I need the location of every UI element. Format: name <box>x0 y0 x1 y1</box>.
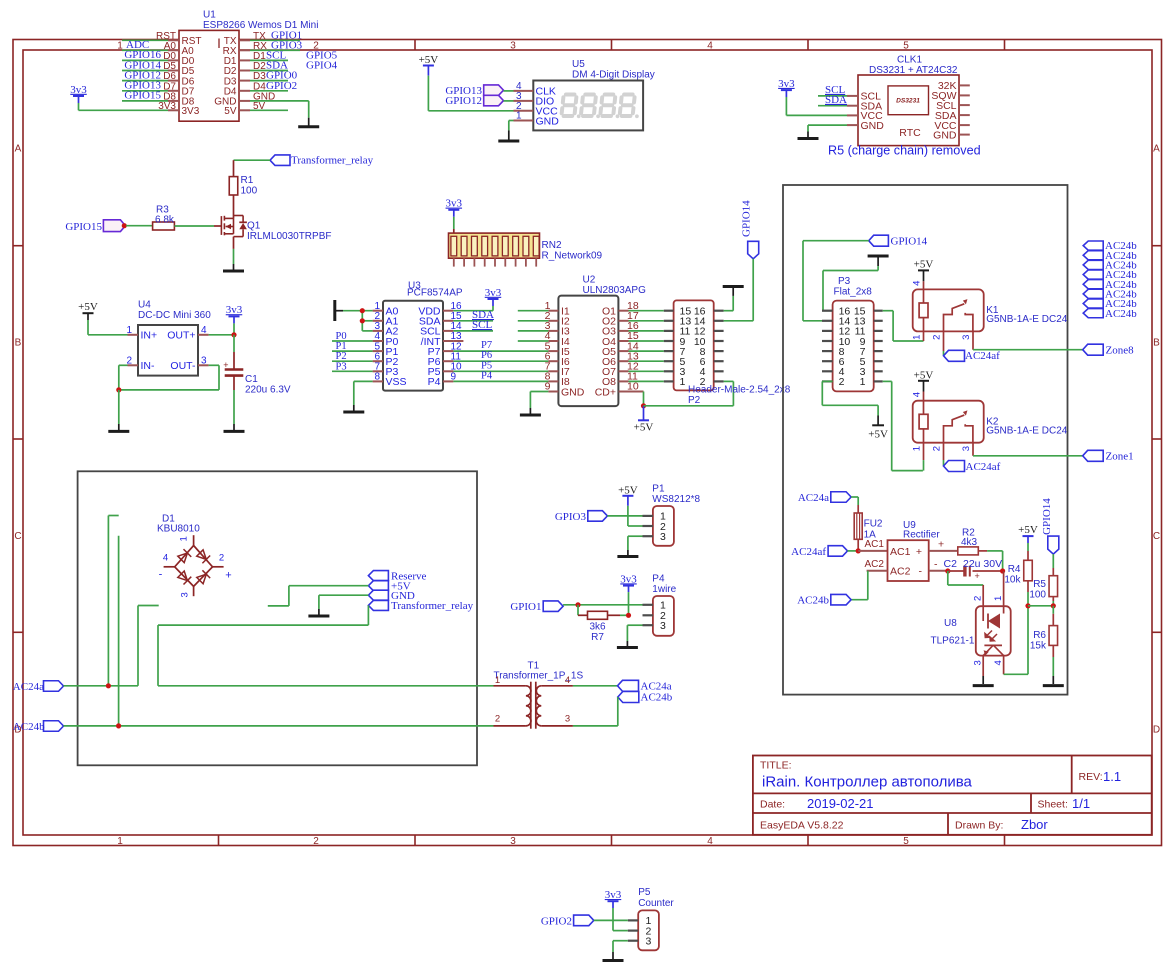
wire I1 input <box>518 310 549 312</box>
wire U5 GND <box>509 121 514 141</box>
flag GPIO12 <box>445 95 503 107</box>
wire P2 net (U3 left) <box>332 360 373 362</box>
svg-text:GPIO12: GPIO12 <box>445 95 482 107</box>
svg-text:Zone1: Zone1 <box>1106 451 1134 463</box>
svg-text:TLP621-1: TLP621-1 <box>931 635 975 646</box>
junction AC24a <box>106 683 111 688</box>
wire O2 to P2 <box>629 320 664 322</box>
flag GPIO14 (P2) <box>741 200 759 259</box>
svg-text:AC2: AC2 <box>890 566 911 578</box>
svg-text:4: 4 <box>707 40 713 51</box>
wire U8 pin3 ground <box>982 656 984 684</box>
ground (P5) <box>603 959 624 962</box>
power +5V (R4) <box>1018 524 1038 560</box>
ground (P1) <box>617 555 638 558</box>
wire P5 U3-U2 <box>453 370 548 372</box>
flag Zone1 <box>1083 450 1134 462</box>
svg-text:U8: U8 <box>944 618 957 629</box>
svg-text:IRLML0030TRPBF: IRLML0030TRPBF <box>247 231 331 242</box>
wire GPIO15 to R3 <box>126 225 153 227</box>
flag GPIO14 (vertical, R5) <box>1041 498 1059 554</box>
svg-text:1/1: 1/1 <box>1072 796 1090 811</box>
wire T1 pin3 to AC24b flag <box>573 697 618 726</box>
capacitor C2 22u 30V <box>944 558 1003 581</box>
svg-text:REV:: REV: <box>1079 771 1103 783</box>
svg-text:AC24af: AC24af <box>966 461 1001 473</box>
wire I2 input <box>518 320 549 322</box>
svg-text:Transformer_relay: Transformer_relay <box>291 155 374 167</box>
junction C2 left <box>945 568 950 573</box>
wire O1 to P2 <box>629 310 664 312</box>
U5 7-segment digits <box>561 95 638 119</box>
svg-text:Zbor: Zbor <box>1021 817 1048 832</box>
wire P3 pin1 to K2 <box>883 381 923 470</box>
wire A0/A1/A2 tie <box>343 311 373 331</box>
wire AC24a to T1 pin1 <box>158 685 494 687</box>
svg-text:4: 4 <box>565 675 570 686</box>
stub /INT <box>453 340 463 342</box>
wire U9 + output <box>929 550 958 552</box>
IC U2 ULN2803APG <box>545 274 646 406</box>
connector P3 Flat_2x8 <box>822 276 883 391</box>
wire P3 pin15 to K1 <box>883 311 924 341</box>
junction R7/P4 pin2 <box>626 613 631 618</box>
svg-text:P4: P4 <box>652 573 665 584</box>
svg-text:PCF8574AP: PCF8574AP <box>407 288 463 299</box>
flag GPIO13 <box>445 85 503 97</box>
svg-text:4: 4 <box>912 392 923 397</box>
wire GPIO1 to P4 pin1 <box>563 604 642 606</box>
svg-text:100: 100 <box>241 186 258 197</box>
svg-text:Flat_2x8: Flat_2x8 <box>834 287 873 298</box>
wire GPIO12 net <box>122 80 168 82</box>
svg-text:1: 1 <box>860 376 866 388</box>
svg-text:3k6: 3k6 <box>589 622 606 633</box>
svg-text:GPIO15: GPIO15 <box>124 90 161 102</box>
junction node2 <box>1025 603 1030 608</box>
IC U4 DC-DC Mini 360 <box>126 300 211 376</box>
wire P4 U3-U2 <box>453 380 548 382</box>
wire R6 ground <box>1052 645 1054 684</box>
svg-text:CLK1: CLK1 <box>897 55 922 66</box>
svg-text:+5V: +5V <box>1018 524 1038 536</box>
label U8 TLP621-1 <box>931 618 975 647</box>
flag AC24b (T1) <box>618 692 673 704</box>
flag Transformer_relay (module) <box>368 600 473 612</box>
ground (U5) <box>498 140 519 143</box>
power 3v3 (U4 out) <box>209 304 243 335</box>
svg-text:FU2: FU2 <box>864 518 883 529</box>
svg-text:GPIO15: GPIO15 <box>65 221 102 233</box>
resistor R3 6.8k <box>153 204 175 230</box>
power +5V (K2) <box>914 369 934 400</box>
module box (relay board) <box>783 185 1068 695</box>
svg-text:3v3: 3v3 <box>778 78 795 90</box>
svg-text:AC24af: AC24af <box>965 350 1000 362</box>
svg-text:VSS: VSS <box>386 376 407 388</box>
svg-text:AC24af: AC24af <box>791 546 826 558</box>
power 3v3 (RN2) <box>446 198 463 237</box>
wire D4 GPIO2 <box>250 90 288 92</box>
power +5V (K1) <box>914 259 934 290</box>
wire P6 U3-U2 <box>453 360 548 362</box>
svg-text:5V: 5V <box>224 106 237 117</box>
svg-text:AC1: AC1 <box>890 546 911 558</box>
svg-text:U5: U5 <box>572 59 585 70</box>
wire node1 to U8 pin1 <box>1003 571 1005 606</box>
svg-text:AC24b: AC24b <box>797 595 829 607</box>
svg-text:1: 1 <box>117 836 123 847</box>
flag AC24af (K2) <box>944 461 1001 473</box>
svg-text:U4: U4 <box>138 300 151 311</box>
wire K2 pin3 to Zone1 <box>973 443 1083 456</box>
svg-text:3v3: 3v3 <box>620 573 637 585</box>
svg-text:R5 (charge chain) removed: R5 (charge chain) removed <box>828 143 981 157</box>
svg-text:GND: GND <box>933 129 957 141</box>
svg-text:22u 30V: 22u 30V <box>963 558 1002 570</box>
svg-text:+: + <box>223 360 228 370</box>
wire P3 pin2 to +5V <box>822 381 878 415</box>
svg-text:+: + <box>225 570 231 582</box>
power 3v3 (U3 VDD) <box>453 287 501 311</box>
ground (Q1) <box>223 270 244 273</box>
svg-text:-: - <box>159 569 163 581</box>
IC U5 DM 4-Digit Display <box>514 59 655 130</box>
junction FU2/AC1 <box>856 548 861 553</box>
svg-text:KBU8010: KBU8010 <box>157 524 200 535</box>
junction A0 <box>360 308 365 313</box>
svg-text:EasyEDA V5.8.22: EasyEDA V5.8.22 <box>760 820 844 832</box>
svg-text:GPIO14: GPIO14 <box>1041 498 1053 535</box>
wire AC24a to FU2 <box>851 497 858 513</box>
wire stub bridge top-left <box>108 516 118 686</box>
wire U3 SCL <box>453 330 493 332</box>
flag AC24a (fuse) <box>798 492 851 504</box>
wire U1 5V <box>250 109 288 111</box>
wire RX GPIO3 <box>250 49 300 51</box>
junction GPIO15 <box>122 223 127 228</box>
power 3v3 (U1) <box>70 84 168 111</box>
wire K2 pin2 to AC24af <box>943 443 945 466</box>
junction CD+ <box>641 403 646 408</box>
svg-text:P4: P4 <box>428 376 441 388</box>
svg-text:+5V: +5V <box>868 428 888 440</box>
flag Transformer_relay (Q1) <box>270 155 374 167</box>
svg-text:+5V: +5V <box>914 259 934 271</box>
svg-text:DC-DC Mini 360: DC-DC Mini 360 <box>138 310 211 321</box>
svg-text:GPIO2: GPIO2 <box>541 915 572 927</box>
wire P1 net (U3 left) <box>332 350 373 352</box>
resistor R5 100 <box>1029 576 1057 601</box>
svg-text:IN+: IN+ <box>141 330 158 342</box>
svg-text:4: 4 <box>912 281 923 286</box>
wire U3 VSS to ground <box>354 381 373 411</box>
junction node3 <box>1051 603 1056 608</box>
ground (U8) <box>973 684 994 687</box>
svg-text:4: 4 <box>707 836 713 847</box>
wire K2 pin1 down <box>923 443 925 471</box>
wire D1 SCL <box>250 59 288 61</box>
wire K1 pin2 to AC24af <box>943 331 945 355</box>
wire O7 to P2 <box>629 370 664 372</box>
fuse FU2 1A <box>854 513 883 540</box>
wire P1 pin3 ground <box>628 536 643 556</box>
flag AC24af (U9 in) <box>791 546 847 558</box>
svg-text:B: B <box>1153 338 1160 349</box>
wire U9 - output <box>929 570 948 572</box>
wire IN- loop OUT- <box>119 365 219 390</box>
wire Transformer_relay to T1 <box>158 605 368 625</box>
junction node1 <box>1000 568 1005 573</box>
svg-text:2: 2 <box>932 335 943 340</box>
junction AC24b <box>116 723 121 728</box>
svg-text:4: 4 <box>993 660 1004 665</box>
svg-text:R7: R7 <box>591 632 604 643</box>
power +5V (P3, pointing up) <box>868 416 888 441</box>
svg-text:RTC: RTC <box>899 127 921 139</box>
svg-text:CD+: CD+ <box>595 386 616 398</box>
ground (U3 VSS) <box>343 411 364 414</box>
svg-text:3v3: 3v3 <box>605 889 622 901</box>
flag GPIO3 <box>555 511 608 523</box>
ground (U4) <box>108 430 129 433</box>
svg-text:3: 3 <box>961 446 972 451</box>
wire T1 primary feed <box>157 625 159 686</box>
svg-text:AC24b: AC24b <box>13 721 45 733</box>
svg-text:2019-02-21: 2019-02-21 <box>807 796 874 811</box>
svg-text:1wire: 1wire <box>652 584 676 595</box>
svg-text:AC24b: AC24b <box>641 692 673 704</box>
svg-text:WS8212*8: WS8212*8 <box>652 494 700 505</box>
wire ADC net <box>122 49 168 51</box>
wire R5 to node3 <box>1052 597 1054 606</box>
svg-text:GPIO1: GPIO1 <box>510 601 541 613</box>
svg-text:C2: C2 <box>944 558 958 570</box>
svg-text:3: 3 <box>510 40 516 51</box>
ground (P3) <box>868 255 889 258</box>
svg-text:-: - <box>934 558 938 570</box>
wire P4 pin3 ground <box>627 625 642 647</box>
junction A1 <box>360 318 365 323</box>
svg-text:Drawn By:: Drawn By: <box>955 820 1003 832</box>
svg-text:2: 2 <box>932 446 943 451</box>
wire O5 to P2 <box>629 350 664 352</box>
svg-text:3: 3 <box>201 355 207 366</box>
svg-text:-: - <box>919 566 923 578</box>
svg-text:15k: 15k <box>1030 640 1047 651</box>
svg-text:Header-Male-2.54_2x8: Header-Male-2.54_2x8 <box>688 385 791 396</box>
wire RST net <box>122 39 168 41</box>
svg-text:6.8k: 6.8k <box>155 215 175 226</box>
flag GPIO15 <box>65 220 125 233</box>
resistor R2 4k3 <box>958 527 979 555</box>
connector P1 WS8212*8 <box>643 483 701 545</box>
wire GPIO13 net <box>122 90 168 92</box>
svg-text:R_Network09: R_Network09 <box>542 250 603 261</box>
wire O8 to P2 <box>629 380 664 382</box>
svg-text:RN2: RN2 <box>542 240 562 251</box>
relay K2 G5NB-1A-E DC24 <box>912 392 1068 451</box>
svg-text:1: 1 <box>179 536 190 541</box>
svg-text:+5V: +5V <box>914 369 934 381</box>
svg-text:C1: C1 <box>245 374 258 385</box>
svg-text:C: C <box>14 531 21 542</box>
connector P5 Counter <box>628 887 675 950</box>
wire GPIO14 to P3 pin14 <box>803 241 869 321</box>
svg-text:3: 3 <box>660 620 666 632</box>
wire CLK1 GND <box>808 125 847 138</box>
wire T1 pin4 to AC24a flag <box>573 685 618 687</box>
IC U3 PCF8574AP <box>373 281 463 391</box>
wire CD+ to +5V <box>629 392 644 406</box>
junction OUT+ <box>231 332 236 337</box>
wire SCL (CLK1) <box>818 95 847 97</box>
svg-text:TITLE:: TITLE: <box>760 759 792 771</box>
wire P0 net (U3 left) <box>332 340 373 342</box>
svg-text:4k3: 4k3 <box>961 537 978 548</box>
bridge rectifier D1 KBU8010 <box>157 514 232 598</box>
svg-text:10k: 10k <box>1004 574 1021 585</box>
wire C1 to ground <box>233 376 235 431</box>
ground (CLK1) <box>798 137 819 140</box>
wire R1 to Q1 drain <box>233 195 235 218</box>
wire O6 to P2 <box>629 360 664 362</box>
wire O3 to P2 <box>629 330 664 332</box>
svg-text:G5NB-1A-E DC24: G5NB-1A-E DC24 <box>986 426 1068 437</box>
wire D2 SDA <box>250 70 288 72</box>
svg-text:AC24b: AC24b <box>1105 308 1137 320</box>
svg-text:1: 1 <box>680 376 686 388</box>
wire U3 SDA <box>453 320 493 322</box>
wire O4 to P2 <box>629 340 664 342</box>
wire GPIO14 to P2 pin14 <box>724 259 754 321</box>
svg-text:Transformer_relay: Transformer_relay <box>391 600 474 612</box>
svg-text:Date:: Date: <box>760 799 785 811</box>
wire OUT+ to C1 <box>233 335 235 370</box>
svg-text:220u 6.3V: 220u 6.3V <box>245 384 291 395</box>
svg-text:3: 3 <box>961 335 972 340</box>
svg-text:GND: GND <box>536 115 560 127</box>
resistor network RN2 R_Network09 <box>449 233 603 267</box>
flag GPIO2 <box>541 915 594 927</box>
relay K1 G5NB-1A-E DC24 <box>912 281 1068 340</box>
svg-text:P4: P4 <box>481 370 493 381</box>
IC CLK1 DS3231 + AT24C32 <box>847 55 970 146</box>
flag Reserve <box>368 570 426 582</box>
svg-text:AC24a: AC24a <box>641 681 672 693</box>
svg-text:3v3: 3v3 <box>226 304 243 316</box>
flag AC24b (left) <box>13 721 64 733</box>
wire R7 branch <box>577 605 579 616</box>
ground (U1) <box>298 125 319 128</box>
svg-text:+: + <box>975 571 980 581</box>
wire I3 input <box>518 330 549 332</box>
wire GPIO15 net <box>122 100 168 102</box>
IC U9 Rectifier <box>888 520 941 581</box>
svg-text:2: 2 <box>313 836 319 847</box>
flag AC24b (U9) <box>797 594 851 606</box>
svg-text:U2: U2 <box>583 274 596 285</box>
svg-text:SCL: SCL <box>472 319 492 331</box>
svg-text:AC1: AC1 <box>865 539 885 550</box>
wire P3 net (U3 left) <box>332 370 373 372</box>
svg-text:4: 4 <box>201 325 207 336</box>
power +5V (below P2) <box>634 406 654 434</box>
svg-text:GPIO14: GPIO14 <box>741 200 753 237</box>
svg-text:3: 3 <box>660 531 666 543</box>
wire node2-node3 <box>1028 605 1053 607</box>
svg-text:R1: R1 <box>241 175 254 186</box>
svg-text:3: 3 <box>973 660 984 665</box>
svg-text:GND: GND <box>861 120 885 132</box>
svg-text:5: 5 <box>903 836 909 847</box>
svg-text:3v3: 3v3 <box>485 287 502 299</box>
ground (R6) <box>1043 684 1064 687</box>
junction GPIO1/R7 <box>575 602 580 607</box>
svg-text:A: A <box>1153 144 1160 155</box>
power 3v3 (P5) <box>605 889 628 931</box>
svg-text:GPIO14: GPIO14 <box>891 236 928 248</box>
ground (P4) <box>617 646 638 649</box>
power 3v3 (P4) <box>620 573 637 615</box>
svg-text:Rectifier: Rectifier <box>903 529 940 540</box>
wire R2 to node1 <box>978 551 1002 571</box>
svg-text:P5: P5 <box>638 887 651 898</box>
svg-text:4: 4 <box>163 552 168 563</box>
svg-text:3v3: 3v3 <box>446 198 463 210</box>
flag Zone8 <box>1083 344 1134 356</box>
svg-text:1: 1 <box>912 335 923 340</box>
wire GPIO13-CLK <box>504 90 514 92</box>
svg-text:1.1: 1.1 <box>1103 769 1121 784</box>
svg-text:B: B <box>15 338 22 349</box>
svg-text:1: 1 <box>912 446 923 451</box>
svg-text:G5NB-1A-E DC24: G5NB-1A-E DC24 <box>986 314 1068 325</box>
connector P2 Header-Male-2.54_2x8 <box>664 300 791 406</box>
wire Q1 source to ground <box>233 237 235 271</box>
wire ground to P3 pin16 <box>822 258 878 311</box>
wire GPIO14 to R5 <box>1052 554 1054 576</box>
resistor R1 100 <box>229 175 257 197</box>
svg-text:OUT+: OUT+ <box>167 330 195 342</box>
flag GPIO1 <box>510 601 563 613</box>
svg-text:2: 2 <box>839 376 845 388</box>
wire AC24a jog <box>138 606 159 686</box>
svg-text:U1: U1 <box>203 10 216 21</box>
wire AC24af to U9 AC1 <box>848 550 859 552</box>
svg-text:+5V: +5V <box>419 54 439 66</box>
svg-text:2: 2 <box>495 714 500 725</box>
wire GND to ground <box>319 595 369 615</box>
wire +5V to P2 pin2 <box>644 381 734 405</box>
svg-text:1: 1 <box>993 596 1004 601</box>
flags AC24b x8 <box>1083 240 1137 320</box>
transformer T1 Transformer_1P_1S <box>494 661 584 729</box>
flag AC24a (left) <box>13 681 64 693</box>
svg-text:P2: P2 <box>688 395 701 406</box>
module box (power input) <box>78 471 477 765</box>
flag AC24a (T1) <box>618 680 672 692</box>
wire U2 GND to ground <box>530 392 548 415</box>
flag GPIO14 (relay box) <box>869 235 928 247</box>
wire P7 U3-U2 <box>453 350 548 352</box>
svg-text:2: 2 <box>973 596 984 601</box>
wire to ground (U4) <box>118 390 120 431</box>
wire GPIO14 net <box>122 70 168 72</box>
wire node3 to R6 <box>1052 606 1054 626</box>
svg-text:A: A <box>15 144 22 155</box>
wire AC2 <box>851 559 888 600</box>
